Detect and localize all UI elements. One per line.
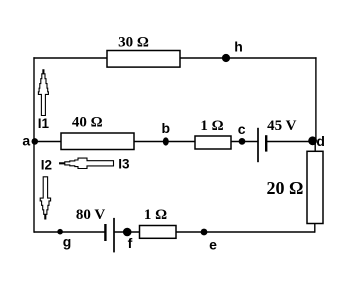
svg-text:30 Ω: 30 Ω bbox=[118, 34, 149, 50]
svg-text:d: d bbox=[316, 133, 325, 149]
svg-text:20 Ω: 20 Ω bbox=[267, 178, 304, 198]
svg-text:1 Ω: 1 Ω bbox=[144, 207, 167, 223]
svg-text:I1: I1 bbox=[38, 116, 50, 131]
resistor 30 ohm (top) bbox=[107, 51, 180, 68]
svg-text:f: f bbox=[128, 235, 133, 251]
wire bottom (80V battery to bottom-right corner) bbox=[114, 231, 315, 233]
svg-text:I3: I3 bbox=[118, 156, 130, 171]
current arrow I2 (down, stepped outline head) bbox=[40, 177, 50, 219]
svg-text:I2: I2 bbox=[41, 157, 52, 172]
node f bbox=[123, 228, 132, 237]
svg-text:h: h bbox=[234, 39, 243, 55]
wire middle branch (a to d) bbox=[34, 141, 258, 143]
wire left vertical (top corner through a down to bottom corner) bbox=[33, 57, 35, 232]
node a bbox=[32, 138, 39, 145]
node c bbox=[239, 138, 246, 145]
svg-text:e: e bbox=[209, 237, 217, 253]
node b bbox=[163, 137, 169, 145]
node e bbox=[201, 229, 208, 236]
svg-text:80 V: 80 V bbox=[76, 207, 105, 223]
svg-text:1 Ω: 1 Ω bbox=[200, 118, 223, 134]
svg-text:b: b bbox=[162, 120, 171, 136]
svg-text:40 Ω: 40 Ω bbox=[72, 115, 103, 131]
resistor 40 ohm bbox=[61, 133, 134, 150]
resistor 20 ohm (right vertical) bbox=[307, 151, 323, 223]
wire right vertical (top corner down to node d) bbox=[315, 57, 317, 141]
wire bottom-right riser to 20-ohm resistor bbox=[314, 223, 316, 233]
resistor 1 ohm (bottom) bbox=[140, 226, 177, 239]
svg-text:45 V: 45 V bbox=[267, 118, 296, 134]
wire from node d down to 20-ohm resistor top bbox=[314, 141, 316, 152]
battery V2 80V long plate bbox=[113, 218, 115, 253]
node g bbox=[57, 229, 63, 235]
wire from 45V battery to node d bbox=[266, 141, 316, 143]
svg-text:a: a bbox=[22, 133, 30, 149]
battery V1 45V short plate bbox=[265, 135, 267, 151]
svg-text:c: c bbox=[238, 121, 246, 137]
current arrow I1 (up, stepped outline head) bbox=[38, 70, 48, 116]
battery V1 45V long plate bbox=[257, 128, 259, 162]
node d bbox=[308, 136, 317, 145]
node h bbox=[222, 54, 230, 62]
wire top (a-corner to h to top-right corner) bbox=[33, 57, 316, 59]
current arrow I3 (left, stepped outline head) bbox=[60, 158, 114, 168]
resistor 1 ohm (middle) bbox=[195, 136, 231, 149]
battery V2 80V short plate bbox=[104, 224, 106, 241]
svg-text:g: g bbox=[63, 234, 72, 250]
wire bottom (corner to 80V battery) bbox=[34, 231, 105, 233]
